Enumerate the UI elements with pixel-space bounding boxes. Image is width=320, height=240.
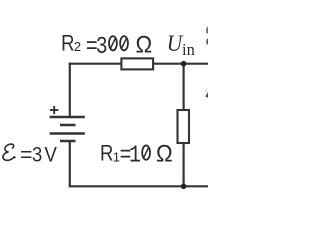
svg-text:in: in — [182, 40, 195, 59]
node Uin junction dot — [181, 61, 187, 67]
svg-text:Ω: Ω — [156, 140, 173, 167]
svg-text:Ω: Ω — [136, 31, 153, 58]
wire left vertical lower — [69, 141, 71, 186]
svg-text:=: = — [20, 142, 32, 166]
svg-text:R: R — [100, 142, 113, 166]
svg-text:3: 3 — [32, 143, 42, 166]
partial glyph top right (cropped character at edge) — [206, 26, 208, 34]
partial glyph top right lower part — [206, 38, 208, 44]
resistor R2 — [121, 58, 153, 69]
battery cell long plate 2 — [50, 132, 85, 135]
battery plus sign — [50, 106, 58, 114]
wire top-right horizontal — [154, 63, 209, 65]
resistor R1 — [178, 110, 190, 143]
svg-text:2: 2 — [74, 39, 81, 54]
label Uin — [167, 30, 195, 59]
wire right vertical lower — [183, 144, 185, 186]
partial glyph right middle (cropped italic letter) — [205, 92, 208, 98]
wire right vertical upper — [183, 64, 185, 110]
svg-text:V: V — [44, 143, 57, 166]
svg-text:R: R — [61, 32, 74, 56]
battery cell short plate 1 — [60, 124, 76, 127]
label R2=300 Ohm — [61, 31, 152, 61]
label =3V of EMF — [20, 142, 57, 166]
svg-text:3: 3 — [96, 32, 108, 61]
battery cell long plate 1 — [50, 116, 85, 119]
partial glyph right middle faint streak — [205, 88, 208, 93]
wire left vertical — [69, 63, 71, 117]
wire top-left horizontal — [69, 63, 121, 65]
node bottom junction dot — [181, 184, 187, 190]
label R1=10 Ohm — [100, 140, 173, 170]
wire bottom horizontal — [69, 185, 208, 187]
label EMF script E — [3, 144, 14, 160]
battery cell short plate 2 — [60, 140, 76, 143]
label EMF terminal dot — [14, 156, 16, 158]
svg-text:1: 1 — [129, 141, 141, 170]
